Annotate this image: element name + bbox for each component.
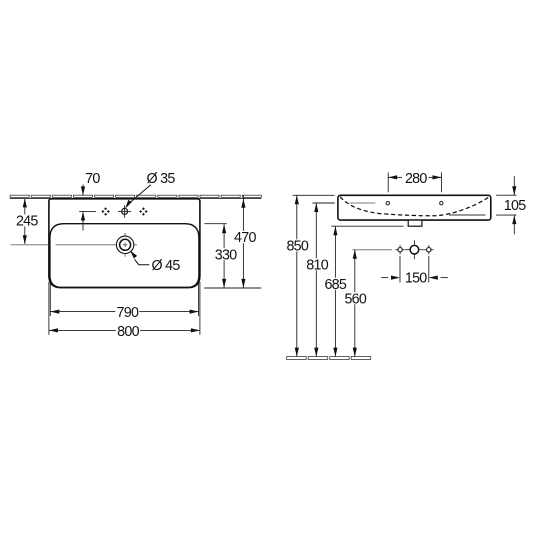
- svg-text:790: 790: [117, 305, 139, 321]
- svg-text:105: 105: [504, 198, 526, 214]
- svg-text:Ø 35: Ø 35: [147, 171, 176, 187]
- svg-text:685: 685: [324, 277, 346, 293]
- svg-text:150: 150: [405, 271, 427, 287]
- svg-text:850: 850: [286, 239, 308, 255]
- svg-text:800: 800: [117, 324, 139, 340]
- svg-text:470: 470: [234, 230, 256, 246]
- svg-text:Ø 45: Ø 45: [152, 258, 181, 274]
- svg-text:70: 70: [85, 171, 100, 187]
- svg-text:330: 330: [215, 247, 237, 263]
- svg-text:280: 280: [405, 171, 427, 187]
- svg-text:560: 560: [344, 291, 366, 307]
- svg-text:810: 810: [306, 257, 328, 273]
- svg-text:245: 245: [16, 214, 38, 230]
